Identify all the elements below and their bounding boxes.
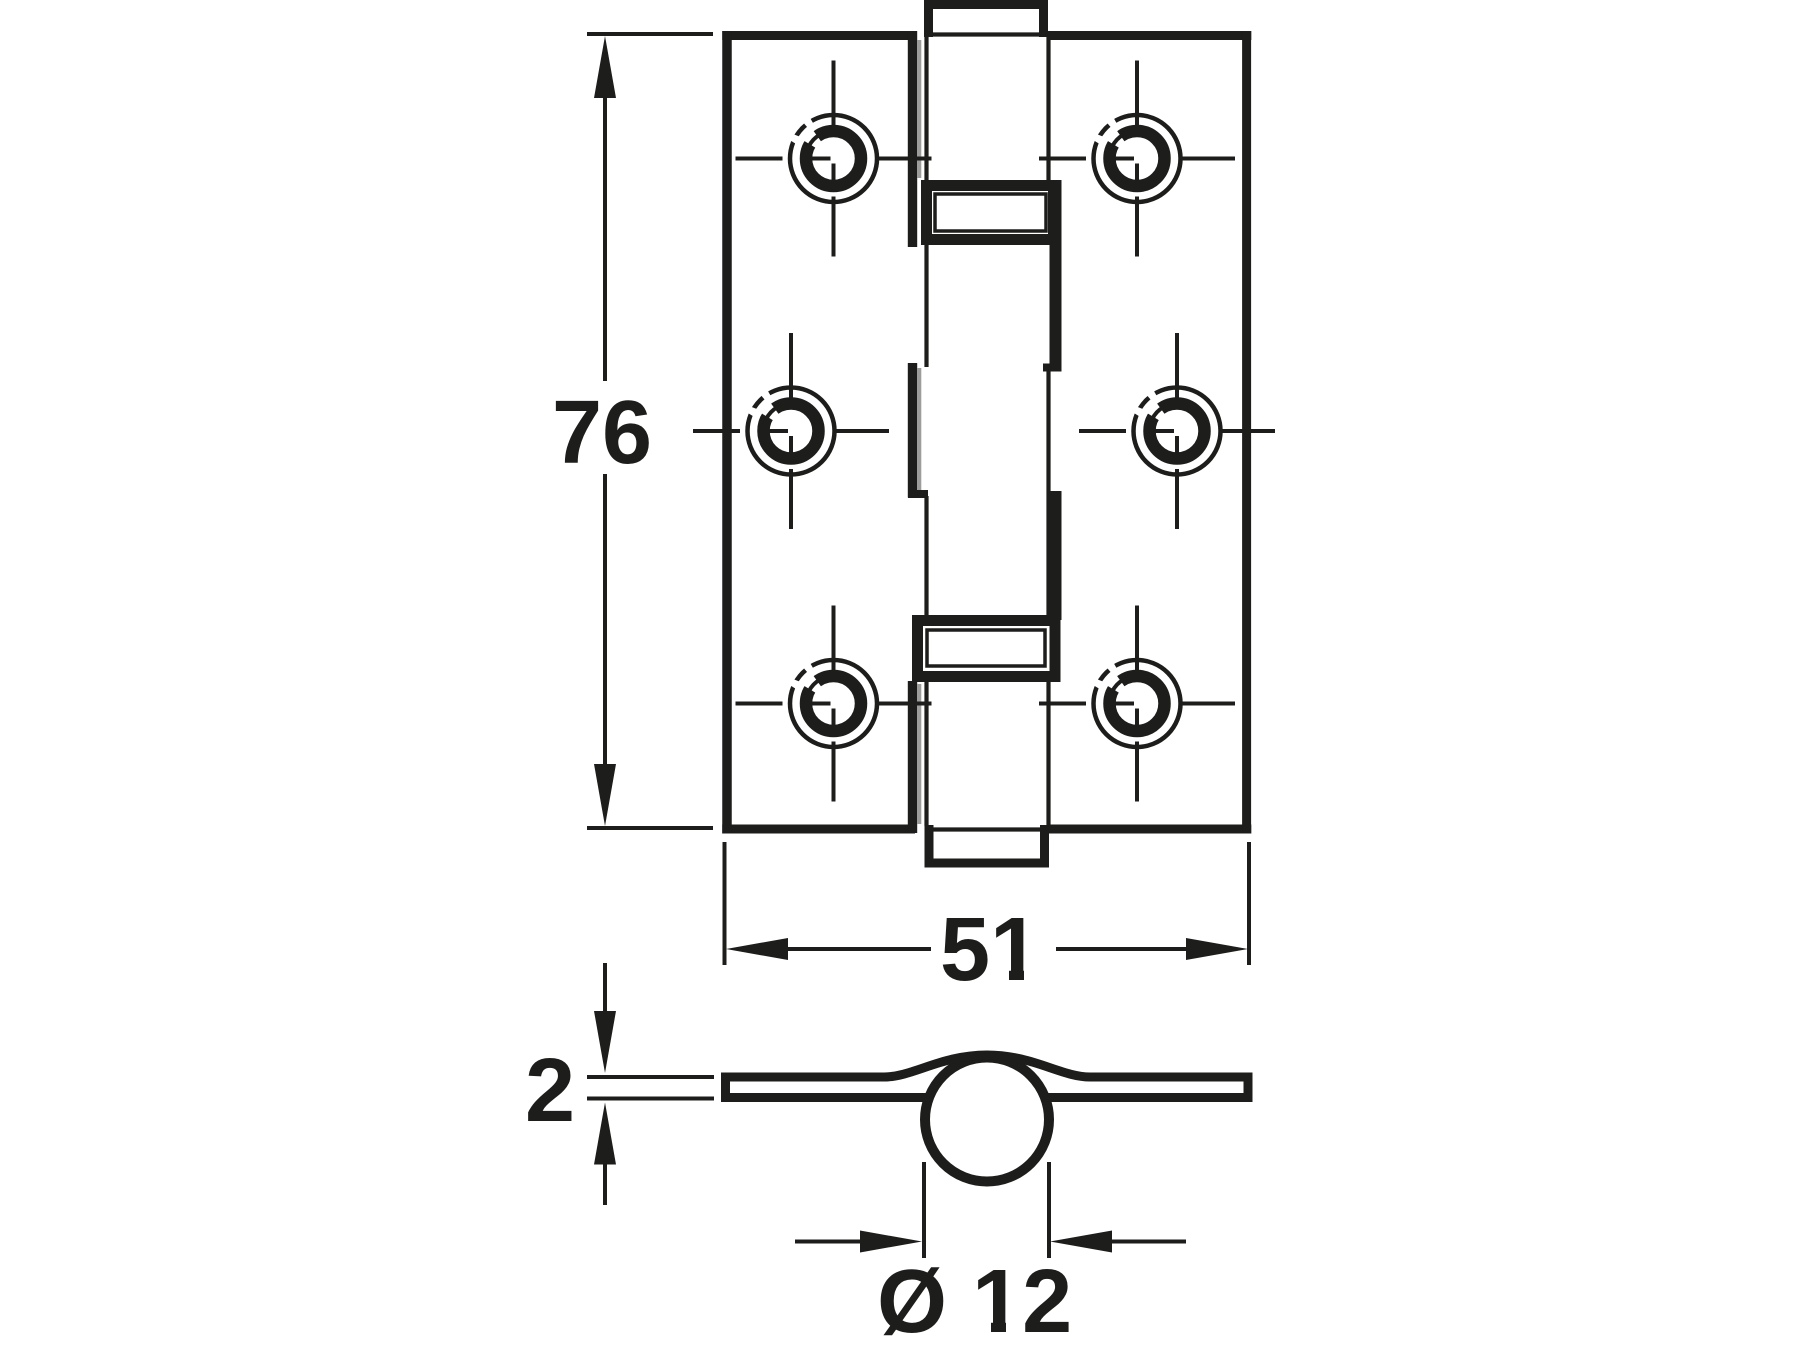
dim 12: arrow left to extension [1050, 1231, 1112, 1253]
knuckle: left thin edge segments [924, 37, 928, 826]
dim 12: arrow right to extension [860, 1231, 922, 1253]
side view: leaf top edge with bump over barrel [725, 1055, 1249, 1077]
side view: left leaf end cap [721, 1073, 730, 1103]
pin cap bottom: thin top line [931, 827, 1041, 831]
knuckle: stub at right segment bottom [1043, 364, 1062, 372]
knuckle: left leaf edge thick segments [908, 31, 917, 833]
screw hole top-left [736, 61, 932, 257]
pin cap top: thin bottom line [931, 32, 1041, 36]
dim 2: arrow up to leaf [594, 1103, 616, 1165]
dim 51: dimension line [760, 947, 1215, 951]
dim 76: arrow up [594, 36, 616, 98]
dim 2: arrow down to leaf [594, 1011, 616, 1073]
dim 12: glyph patch for arial-style one [965, 1305, 991, 1339]
hinge leaf outline: right edge [1242, 31, 1251, 834]
dim 51: glyph patch for arial-style one [994, 954, 1009, 983]
screw hole bottom-right [1039, 606, 1235, 802]
hinge leaf outline: top edge right part [1048, 31, 1251, 40]
washer ring upper: inner line [935, 194, 1046, 231]
knuckle: gray shadow line segments [917, 40, 921, 824]
svg-text:51: 51 [940, 900, 1040, 1000]
dim 51: arrow left [726, 938, 788, 960]
knuckle: right thin edge segments [1046, 37, 1050, 826]
hinge leaf outline: top edge left part [722, 31, 914, 40]
dim 76: top extension line [587, 32, 713, 36]
knuckle: right leaf edge thick segments [1050, 180, 1062, 620]
dim 51: right extension line [1247, 842, 1251, 965]
washer ring lower: outer [918, 621, 1056, 677]
side view: knuckle barrel circle [925, 1058, 1049, 1182]
dim 2: lower dimension line [603, 1155, 607, 1205]
side view: left leaf bottom edge [725, 1093, 927, 1102]
dim 2: bottom extension line [587, 1097, 714, 1101]
pin cap bottom: white body [925, 825, 1050, 867]
dim 2: top extension line [587, 1075, 714, 1079]
hinge leaf outline: left edge [722, 31, 732, 834]
dim 51: left extension line [723, 842, 727, 965]
knuckle: stub at left segment bottom [908, 490, 928, 498]
dim 12: left extension line [922, 1162, 926, 1258]
screw hole mid-left [693, 333, 889, 529]
pin cap top: white body [924, 0, 1048, 37]
hinge leaf outline: bottom edge right part [1048, 825, 1251, 834]
side view: right leaf bottom edge [1048, 1093, 1249, 1102]
dim 12: right dimension line [1105, 1240, 1186, 1244]
dim 51: arrow right [1186, 938, 1248, 960]
dim 76: dimension line [603, 90, 607, 770]
dim 12: right extension line [1047, 1162, 1051, 1258]
screw hole top-right [1039, 61, 1235, 257]
dim 12: left dimension line [795, 1240, 870, 1244]
washer ring lower: inner line [927, 630, 1045, 666]
dim 76: arrow down [594, 764, 616, 826]
screw hole mid-right [1079, 333, 1275, 529]
washer ring upper: outer [927, 186, 1054, 240]
dim 2: upper dimension line [603, 963, 607, 1020]
pin cap bottom: thick borders [925, 825, 1050, 867]
screw hole bottom-left [736, 606, 932, 802]
hinge leaf outline: bottom edge left part [722, 825, 915, 834]
pin cap top: thick borders [924, 0, 1048, 37]
svg-text:2: 2 [525, 1041, 575, 1141]
side view: right leaf end cap [1244, 1073, 1253, 1103]
svg-text:76: 76 [552, 383, 652, 483]
dim 76: bottom extension line [587, 826, 713, 830]
